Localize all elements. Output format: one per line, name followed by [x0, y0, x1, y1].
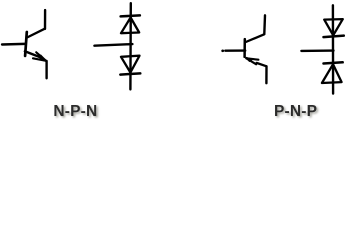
- transistor Q2 emitter lead wire: [265, 66, 268, 83]
- transistor Q1 emitter arrowhead: [36, 52, 46, 61]
- label P-N-P: [274, 103, 317, 121]
- diode D1 triangle (pointing up): [121, 18, 139, 34]
- diode pair vertical wire (P-N-P equivalent): [332, 5, 335, 93]
- diode D2 cathode bar: [120, 73, 140, 74]
- transistor Q1 emitter lead wire: [45, 61, 47, 78]
- diode D2 triangle (pointing down): [121, 56, 140, 73]
- transistor Q2 base bar: [243, 39, 246, 57]
- transistor Q2 collector lead wire: [263, 15, 266, 34]
- transistor Q2 emitter arrowhead: [246, 58, 258, 59]
- diode D3 cathode bar: [324, 36, 344, 38]
- transistor Q1 emitter diagonal wire: [25, 51, 41, 57]
- transistor Q2 base wire: [225, 49, 245, 52]
- transistor Q1 base bar: [25, 32, 27, 56]
- diode D4 cathode bar: [324, 62, 343, 63]
- transistor Q2 collector diagonal wire: [246, 34, 264, 42]
- diode D4 triangle (pointing up): [322, 64, 342, 83]
- node wire: N-P-N base lead: [94, 44, 132, 46]
- transistor Q2 emitter diagonal wire: [257, 63, 267, 66]
- diode D3 triangle (pointing down): [324, 19, 343, 35]
- transistor Q1 (NPN) base wire: [2, 43, 24, 46]
- transistor Q2 (PNP) base wire start dot: [221, 49, 224, 52]
- diode D1 cathode bar: [121, 15, 140, 16]
- node wire: P-N-P base lead: [301, 49, 333, 52]
- diode pair vertical wire (N-P-N equivalent): [129, 3, 132, 89]
- transistor Q1 collector lead wire: [44, 10, 46, 29]
- transistor Q1 collector diagonal wire: [27, 29, 45, 38]
- label N-P-N: [53, 103, 97, 121]
